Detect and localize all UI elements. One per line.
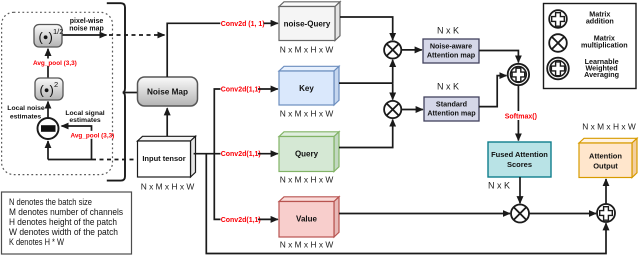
svg-text:Scores: Scores bbox=[507, 160, 532, 169]
noise map box bbox=[138, 77, 198, 106]
wire branch up to key conv bbox=[214, 89, 220, 154]
input tensor 3d box bbox=[138, 136, 196, 177]
svg-text:Avg_pool (3,3): Avg_pool (3,3) bbox=[71, 132, 115, 139]
wire branch down to value conv bbox=[214, 154, 220, 220]
svg-text:Local noise: Local noise bbox=[7, 105, 45, 112]
learnable weighted averaging node bbox=[508, 64, 529, 85]
svg-text:N x M x H x W: N x M x H x W bbox=[280, 175, 334, 185]
wire multiply 3 to adder bbox=[529, 213, 596, 215]
svg-text:estimates: estimates bbox=[69, 117, 101, 124]
legend matrix addition label bbox=[586, 10, 614, 26]
wire conv2d arrow into value bbox=[258, 218, 278, 220]
legend averaging label bbox=[584, 57, 619, 79]
label Avg_pool upper bbox=[33, 59, 77, 68]
wire query up into multiply 2 bbox=[339, 120, 393, 148]
svg-text:Avg_pool (3,3): Avg_pool (3,3) bbox=[33, 60, 77, 67]
wire conv2d arrow into key bbox=[258, 88, 278, 90]
grouping bracket bbox=[107, 3, 125, 180]
svg-text:Key: Key bbox=[299, 84, 314, 93]
wire dashed pixel-wise noise map arrow bbox=[109, 34, 165, 36]
svg-text:Fused Attention: Fused Attention bbox=[491, 150, 548, 159]
label pixel-wise noise map bbox=[69, 18, 104, 32]
wire standard map to averaging node bbox=[479, 76, 507, 107]
svg-text:N x K: N x K bbox=[437, 26, 459, 36]
noise-aware attention map box bbox=[423, 39, 479, 63]
svg-text:Conv2d(1,1): Conv2d(1,1) bbox=[221, 87, 261, 94]
svg-text:Conv2d(1,1): Conv2d(1,1) bbox=[221, 151, 261, 158]
subtract circle bbox=[38, 118, 59, 139]
wire subtract circle to square box bbox=[47, 102, 49, 119]
legend box top right bbox=[544, 4, 637, 89]
wire value to multiply 3 bbox=[339, 213, 510, 215]
multiply node 3 bbox=[511, 205, 529, 223]
multiply node 2 bbox=[384, 101, 401, 118]
svg-text:Output: Output bbox=[593, 162, 618, 171]
svg-text:1/2: 1/2 bbox=[53, 27, 63, 36]
noise-query 3d box bbox=[279, 2, 340, 41]
svg-text:(: ( bbox=[40, 83, 45, 98]
legend averaging icon bbox=[547, 58, 569, 80]
wire residual bus to adder bbox=[206, 154, 606, 254]
svg-text:2: 2 bbox=[54, 80, 58, 89]
svg-text:Conv2d (1, 1): Conv2d (1, 1) bbox=[221, 21, 265, 28]
wire noise map to conv2d noise-query bbox=[167, 23, 220, 77]
svg-text:multiplication: multiplication bbox=[581, 40, 628, 49]
svg-text:Softmax(): Softmax() bbox=[505, 114, 537, 121]
wire avg_pool branch to subtract circle bbox=[62, 126, 92, 160]
fused attention scores box bbox=[488, 142, 551, 177]
svg-text:Query: Query bbox=[295, 150, 319, 159]
label local noise estimates bbox=[7, 105, 45, 120]
svg-text:addition: addition bbox=[586, 17, 614, 26]
wire noise-query to multiply 1 bbox=[340, 17, 393, 40]
multiply node 1 bbox=[384, 41, 401, 58]
svg-text:Value: Value bbox=[296, 215, 317, 224]
svg-text:N x M x H x W: N x M x H x W bbox=[582, 122, 636, 132]
wire conv2d arrow into query bbox=[258, 153, 278, 155]
svg-text:N x K: N x K bbox=[488, 181, 510, 191]
wire fused scores to multiply 3 bbox=[519, 177, 521, 203]
label Avg_pool lower bbox=[70, 131, 114, 140]
svg-text:K denotes H * W: K denotes H * W bbox=[9, 237, 65, 248]
standard attention map box bbox=[424, 97, 479, 121]
wire multiply 2 to standard map bbox=[401, 109, 423, 111]
svg-text:Attention map: Attention map bbox=[427, 109, 476, 118]
svg-text:Averaging: Averaging bbox=[584, 70, 619, 79]
notation legend box bottom left bbox=[2, 192, 132, 254]
svg-text:Conv2d(1,1): Conv2d(1,1) bbox=[221, 217, 261, 224]
wire up into subtract circle bbox=[47, 141, 49, 160]
wire multiply 1 to noise-aware map bbox=[401, 49, 422, 51]
wire input tensor to noise map bbox=[166, 108, 168, 141]
legend matrix addition icon bbox=[549, 10, 567, 28]
label local signal estimates bbox=[65, 110, 104, 124]
svg-text:Local signal: Local signal bbox=[65, 110, 104, 117]
legend matrix multiplication icon bbox=[549, 34, 567, 52]
svg-text:noise map: noise map bbox=[69, 26, 104, 33]
wire key to multiply nodes bbox=[339, 82, 393, 84]
wire averaging node to fused scores (softmax) bbox=[517, 85, 519, 140]
wire square box to sqrt box bbox=[47, 49, 49, 78]
sqrt operator box bbox=[34, 25, 63, 48]
wire key branch up into multiply 1 bbox=[392, 60, 394, 83]
square operator box bbox=[35, 78, 63, 100]
svg-text:Attention: Attention bbox=[589, 152, 622, 161]
svg-text:Noise-aware: Noise-aware bbox=[430, 42, 472, 51]
svg-text:N x M x H x W: N x M x H x W bbox=[141, 182, 195, 192]
svg-text:Attention map: Attention map bbox=[427, 51, 476, 60]
wire conv2d arrow into noise-query bbox=[264, 22, 278, 24]
svg-text:pixel-wise: pixel-wise bbox=[70, 18, 104, 25]
query 3d box bbox=[279, 132, 339, 172]
svg-text:(: ( bbox=[39, 30, 44, 45]
wire key branch down into multiply 2 bbox=[392, 83, 394, 100]
adder node bbox=[597, 204, 615, 222]
noise estimation module dashed box bbox=[2, 12, 113, 174]
wire module bottom horizontal bbox=[48, 159, 92, 161]
wire input tensor output bus bbox=[194, 153, 221, 155]
svg-text:N x M x H x W: N x M x H x W bbox=[280, 109, 334, 119]
svg-text:Input tensor: Input tensor bbox=[142, 154, 185, 163]
legend matrix multiplication label bbox=[581, 34, 628, 50]
wire sqrt box to pixel-wise noise map bbox=[63, 34, 107, 36]
label softmax bbox=[504, 111, 537, 121]
wire bracket to noise map box bbox=[123, 92, 138, 94]
key 3d box bbox=[279, 66, 339, 105]
value 3d box bbox=[279, 197, 339, 237]
svg-text:estimates: estimates bbox=[10, 113, 42, 120]
wire noise-aware map to averaging node bbox=[479, 51, 518, 63]
svg-text:noise-Query: noise-Query bbox=[284, 20, 331, 29]
svg-text:N x K: N x K bbox=[437, 81, 459, 91]
attention output 3d box bbox=[579, 138, 637, 177]
svg-text:N x M x H x W: N x M x H x W bbox=[280, 240, 334, 250]
svg-text:Standard: Standard bbox=[436, 100, 467, 109]
svg-text:N x M x H x W: N x M x H x W bbox=[280, 45, 334, 55]
wire adder to attention output bbox=[605, 179, 607, 204]
svg-text:Noise Map: Noise Map bbox=[147, 88, 188, 97]
wire input tensor to module (dashed) bbox=[92, 159, 138, 161]
